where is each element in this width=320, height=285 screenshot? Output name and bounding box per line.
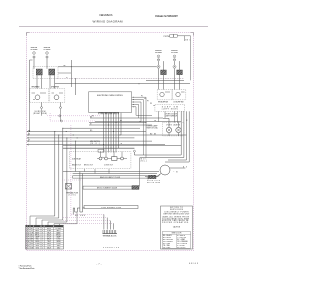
svg-text:FEFL67ECS: FEFL67ECS xyxy=(100,13,113,17)
wire row above bake xyxy=(63,172,159,174)
svg-text:BR-W: BR-W xyxy=(47,239,52,241)
svg-text:GY: GY xyxy=(31,237,33,239)
wire bus rows right xyxy=(63,118,181,148)
header publication number text xyxy=(155,15,179,18)
wire resistors to switches right xyxy=(159,69,180,90)
dashed enclosure left elements xyxy=(33,67,58,79)
footer page number xyxy=(97,263,102,265)
svg-text:(N.C.): (N.C.) xyxy=(141,161,147,163)
dashed wire neutral 2 xyxy=(50,120,95,122)
svg-text:LR SURF SW: LR SURF SW xyxy=(174,101,184,103)
svg-text:GN - GREEN: GN - GREEN xyxy=(163,241,173,243)
surface element RF label xyxy=(31,47,39,51)
svg-text:P7: P7 xyxy=(147,100,149,102)
svg-text:BROIL RLY: BROIL RLY xyxy=(84,164,94,166)
wire P12 out xyxy=(178,36,191,81)
svg-text:MDL: MDL xyxy=(141,159,147,161)
svg-text:P8: P8 xyxy=(150,103,152,105)
wire motor connections xyxy=(145,167,187,178)
terminal block TB1 xyxy=(103,230,118,234)
title WIRING DIAGRAM xyxy=(93,19,124,23)
notes text xyxy=(162,207,190,229)
svg-text:P9: P9 xyxy=(153,105,155,107)
svg-text:BU - BLUE: BU - BLUE xyxy=(163,237,171,239)
svg-text:TN: TN xyxy=(120,143,122,145)
wire diamonds drops xyxy=(42,109,61,121)
svg-text:-7-: -7- xyxy=(97,263,102,265)
svg-text:SERVICERS: SERVICERS xyxy=(170,209,184,211)
svg-text:BROIL: BROIL xyxy=(35,234,40,236)
broil element xyxy=(83,186,132,190)
wire labels right xyxy=(154,120,188,136)
svg-text:OR-W: OR-W xyxy=(47,232,52,234)
svg-text:11: 11 xyxy=(26,248,28,250)
svg-text:RF SURF SW: RF SURF SW xyxy=(32,87,40,89)
svg-text:GY: GY xyxy=(28,140,30,142)
svg-text:PK - PINK: PK - PINK xyxy=(163,247,171,249)
EOC pin labels xyxy=(141,96,155,108)
surface element RR xyxy=(157,55,160,58)
svg-text:# Functional Parts: # Functional Parts xyxy=(19,264,32,267)
connector P12 label xyxy=(164,36,170,38)
wire element link xyxy=(58,72,71,74)
svg-text:W-BK: W-BK xyxy=(47,230,51,232)
relay box enclosure xyxy=(69,152,130,169)
svg-text:2: 2 xyxy=(42,248,43,250)
left switch group label xyxy=(33,111,47,115)
svg-text:DLB RELAY: DLB RELAY xyxy=(72,157,82,160)
svg-text:RF 2600W: RF 2600W xyxy=(31,49,38,51)
svg-text:W: W xyxy=(186,120,188,122)
svg-text:BAKE RLY: BAKE RLY xyxy=(72,163,82,166)
limiter RF xyxy=(33,56,35,58)
surface element LR label xyxy=(171,50,179,54)
svg-text:GY-W: GY-W xyxy=(47,237,52,239)
svg-text:CONV RLY: CONV RLY xyxy=(104,164,114,166)
relay stubs xyxy=(101,152,123,158)
svg-text:BK: BK xyxy=(64,65,66,67)
svg-text:W: W xyxy=(90,124,92,126)
svg-text:BU-W: BU-W xyxy=(47,234,52,236)
svg-text:SWITCH 25A: SWITCH 25A xyxy=(147,127,159,130)
svg-text:(TOD): (TOD) xyxy=(68,195,76,197)
surface element LR xyxy=(173,55,176,58)
connector P12 xyxy=(170,34,177,37)
wire left bundle verticals xyxy=(55,128,76,222)
wire bus rows left xyxy=(27,132,187,145)
svg-text:E: E xyxy=(28,234,29,236)
svg-text:BROIL ELEMENT 3000W: BROIL ELEMENT 3000W xyxy=(97,188,117,190)
wire LF element down xyxy=(46,58,48,69)
svg-text:(RIGHT SIDE): (RIGHT SIDE) xyxy=(33,113,47,115)
infinite switch RF label xyxy=(32,87,40,89)
dashed border frame xyxy=(27,33,194,251)
wire LR element down xyxy=(175,61,180,70)
oven lamps enclosure xyxy=(163,123,184,136)
oven door light switch label xyxy=(165,113,178,117)
bake element xyxy=(73,176,149,179)
svg-text:BROIL: BROIL xyxy=(56,234,61,236)
legend table grid xyxy=(26,225,64,249)
svg-text:YL-W: YL-W xyxy=(47,245,51,247)
broil element hatched end xyxy=(132,186,139,190)
svg-text:5: 5 xyxy=(42,239,43,241)
infinite switch RR label xyxy=(158,101,168,103)
svg-text:BU: BU xyxy=(31,234,33,236)
convection element xyxy=(84,206,138,210)
wire switch RF down xyxy=(41,102,43,106)
svg-text:BK: BK xyxy=(120,120,122,122)
svg-text:LR 1200W: LR 1200W xyxy=(171,52,178,54)
wire left side riser xyxy=(29,60,33,132)
svg-text:F: F xyxy=(28,237,29,239)
svg-text:CAUTION: CAUTION xyxy=(173,225,181,228)
svg-text:RD: RD xyxy=(31,228,34,230)
svg-text:NEUT: NEUT xyxy=(35,230,39,232)
svg-text:*B: *B xyxy=(174,172,179,174)
svg-text:P5: P5 xyxy=(141,96,143,98)
limiter RR xyxy=(157,59,159,61)
svg-text:RR 1800W: RR 1800W xyxy=(155,52,162,54)
svg-text:BU: BU xyxy=(28,134,30,136)
ground prongs xyxy=(73,207,84,215)
dashed wire stub vertical xyxy=(49,113,51,121)
svg-text:H: H xyxy=(28,241,29,243)
svg-text:L: L xyxy=(28,248,29,250)
svg-text:K: K xyxy=(28,245,29,247)
lamp 2 xyxy=(176,127,181,132)
thermal fuse label xyxy=(66,192,78,197)
svg-text:PR - PURPLE: PR - PURPLE xyxy=(177,243,187,245)
svg-text:TN-W: TN-W xyxy=(47,241,51,243)
node A diamond xyxy=(40,106,43,108)
surface element RR label xyxy=(155,50,163,54)
wire vertical BK xyxy=(64,60,72,87)
svg-text:ELECTRONIC OVEN CONTROL: ELECTRONIC OVEN CONTROL xyxy=(97,95,124,97)
dashed wire bundle xyxy=(70,125,72,216)
svg-text:6: 6 xyxy=(42,230,43,232)
terminal block label xyxy=(103,235,118,238)
surface element RF xyxy=(33,52,36,55)
svg-text:BAKE ELEMENT 2500W: BAKE ELEMENT 2500W xyxy=(100,176,120,179)
wire mid row 1 xyxy=(63,144,181,146)
svg-text:(N.O.): (N.O.) xyxy=(90,143,100,145)
svg-text:BK: BK xyxy=(31,226,33,228)
svg-text:RD-W: RD-W xyxy=(47,228,52,230)
wire RF element down xyxy=(33,58,35,69)
svg-text:POWER: POWER xyxy=(56,226,63,228)
footer functional parts note xyxy=(19,264,35,270)
svg-text:YL: YL xyxy=(31,245,33,247)
latch text right xyxy=(141,159,147,163)
wires elements to switches xyxy=(37,75,55,88)
svg-text:RD - RED: RD - RED xyxy=(163,243,171,245)
svg-text:DOOR LOCK: DOOR LOCK xyxy=(147,180,161,182)
svg-text:SENS: SENS xyxy=(35,241,39,243)
infinite switch LR xyxy=(172,90,186,100)
heating resistor LR xyxy=(177,70,183,75)
wire top bus right segment xyxy=(55,83,190,84)
surface element LF xyxy=(46,52,49,55)
EOC P1 label xyxy=(92,116,94,118)
svg-text:08/05: 08/05 xyxy=(189,263,199,265)
electronic oven control board U1 xyxy=(89,92,132,113)
svg-text:P12 PW: P12 PW xyxy=(164,36,170,38)
svg-text:2: 2 xyxy=(42,226,43,228)
wire RR element down xyxy=(159,61,164,70)
svg-text:POWER: POWER xyxy=(56,228,63,230)
relay contact 3 xyxy=(117,157,127,160)
wire broil right riser xyxy=(139,158,141,187)
relay coil xyxy=(108,157,117,161)
dashed wire neutral 1 xyxy=(47,115,100,117)
infinite switch RR xyxy=(157,90,172,100)
svg-text:PR-W: PR-W xyxy=(47,243,52,245)
dashed wire mid xyxy=(62,179,83,181)
node C diamond xyxy=(157,65,160,69)
svg-text:CONV: CONV xyxy=(35,243,39,245)
notes box xyxy=(161,206,193,249)
relay labels xyxy=(72,157,114,166)
svg-text:Y - YELLOW: Y - YELLOW xyxy=(177,237,187,239)
wire mid row 2 xyxy=(63,147,135,149)
svg-text:* Non-Illuminated Parts: * Non-Illuminated Parts xyxy=(19,267,35,270)
svg-text:GN: GN xyxy=(31,248,33,250)
latch switch label xyxy=(90,141,101,145)
wire staircase to table xyxy=(30,212,77,225)
svg-text:P1: P1 xyxy=(92,116,94,118)
infinite switch LF xyxy=(50,89,65,103)
svg-text:MC GND: MC GND xyxy=(75,215,86,217)
svg-text:BK: BK xyxy=(183,167,187,169)
svg-text:BEFORE SERVICING UNIT: BEFORE SERVICING UNIT xyxy=(164,213,191,215)
svg-text:GD - GOLD: GD - GOLD xyxy=(177,247,186,249)
svg-text:MOTOR 100W: MOTOR 100W xyxy=(147,182,160,184)
node E diamond xyxy=(133,150,136,155)
svg-text:THERMAL FUSE: THERMAL FUSE xyxy=(66,192,78,195)
svg-text:L1 IN: L1 IN xyxy=(36,226,40,228)
relay contact 1 xyxy=(97,157,102,160)
wire vertical W xyxy=(66,77,75,95)
svg-text:BR - BROWN: BR - BROWN xyxy=(163,239,174,241)
infinite switch RF xyxy=(30,89,49,103)
wire stubs below relay box xyxy=(85,169,110,174)
oven lamp left label xyxy=(147,125,159,130)
wire verticals to broil ground xyxy=(80,172,83,209)
limiter LF xyxy=(46,56,48,58)
svg-text:CONV: CONV xyxy=(56,243,60,245)
wire labels bus xyxy=(28,117,153,146)
heating resistor RF xyxy=(36,69,42,75)
svg-text:LF SURF SW: LF SURF SW xyxy=(51,87,59,89)
limiter LR xyxy=(173,59,175,61)
wire right bundle bends xyxy=(134,155,189,162)
legend table xyxy=(26,225,64,249)
latch switch symbol xyxy=(98,150,104,153)
door lock motor label xyxy=(147,177,161,185)
svg-text:PROPER OPERATION.: PROPER OPERATION. xyxy=(162,221,190,224)
svg-text:RR SURF SW: RR SURF SW xyxy=(158,101,168,103)
dashed wires to terminal block xyxy=(63,215,114,230)
diagram part number xyxy=(103,247,120,249)
infinite switch LF label xyxy=(51,87,59,89)
svg-text:BK: BK xyxy=(90,117,92,119)
EOC right pins xyxy=(132,97,146,108)
svg-text:LF 1800W: LF 1800W xyxy=(44,49,51,51)
door lock motor M1 xyxy=(160,165,178,175)
wire right bundle verticals xyxy=(181,111,189,162)
wire right group drops xyxy=(159,111,178,122)
svg-text:BK: BK xyxy=(154,134,156,136)
relay contact 2 xyxy=(102,157,108,160)
svg-text:CONV ELEMENT 350W: CONV ELEMENT 350W xyxy=(101,207,121,209)
svg-text:MDL: MDL xyxy=(36,239,39,241)
svg-text:P6: P6 xyxy=(144,98,146,100)
wire fan EOC verticals xyxy=(104,113,122,153)
off-page connector chevrons xyxy=(27,131,28,146)
heating resistor RR xyxy=(161,70,167,75)
svg-text:(LEFT SIDE): (LEFT SIDE) xyxy=(162,109,178,111)
svg-text:TERMINAL BLOCK: TERMINAL BLOCK xyxy=(103,235,118,238)
infinite switch LR label xyxy=(174,101,184,103)
svg-text:BK - BLACK: BK - BLACK xyxy=(163,234,173,237)
thermal fuse TOD xyxy=(66,184,72,190)
heating resistor LF xyxy=(49,69,55,75)
svg-text:WIRING DIAGRAM: WIRING DIAGRAM xyxy=(93,19,124,23)
svg-text:0: 0 xyxy=(42,245,43,247)
wire right verticals under EOC xyxy=(136,97,152,157)
lamp 1 xyxy=(166,127,171,132)
svg-text:TN: TN xyxy=(31,241,33,243)
svg-text:7: 7 xyxy=(42,241,43,243)
svg-text:1: 1 xyxy=(42,234,43,236)
svg-text:3: 3 xyxy=(42,237,43,239)
svg-text:SENS: SENS xyxy=(56,241,60,243)
svg-text:W - WHITE: W - WHITE xyxy=(177,235,185,237)
svg-text:BK 1: BK 1 xyxy=(185,40,190,42)
svg-text:Publication No: 5995443487: Publication No: 5995443487 xyxy=(155,15,179,18)
svg-text:4: 4 xyxy=(42,228,43,230)
junction dots bus xyxy=(54,121,146,149)
svg-text:316441794: 316441794 xyxy=(103,247,120,249)
EOC bottom connector P1 xyxy=(99,112,120,114)
wire right L1 feed xyxy=(146,79,184,81)
wire L1 top bus xyxy=(58,66,157,68)
svg-text:9: 9 xyxy=(42,243,43,245)
right group enclosure xyxy=(155,104,185,111)
svg-text:BK-W: BK-W xyxy=(47,226,52,228)
surface element LF label xyxy=(44,47,52,51)
wire lamps feed xyxy=(163,118,179,136)
svg-text:OVEN LAMPS: OVEN LAMPS xyxy=(166,123,180,126)
header separator line xyxy=(19,25,208,27)
svg-text:LOCK: LOCK xyxy=(56,239,60,241)
svg-text:L2 IN: L2 IN xyxy=(36,228,40,230)
svg-text:2: 2 xyxy=(26,228,27,230)
footer date xyxy=(189,263,199,265)
svg-text:V - VIOLET: V - VIOLET xyxy=(177,245,185,247)
wire switch LF down xyxy=(60,102,62,106)
node B diamond xyxy=(59,106,62,108)
node D diamond xyxy=(173,65,176,69)
svg-text:GN-W: GN-W xyxy=(47,248,52,250)
bake element hatched end xyxy=(149,175,156,178)
svg-text:OR: OR xyxy=(154,120,156,122)
ground label xyxy=(75,215,86,217)
svg-text:NEUT: NEUT xyxy=(56,230,60,232)
header model number text xyxy=(100,13,113,17)
wire L2 top bus xyxy=(57,78,184,79)
svg-text:8: 8 xyxy=(42,232,43,234)
svg-text:LIGHT SWITCH: LIGHT SWITCH xyxy=(165,115,178,117)
svg-text:B: B xyxy=(28,228,29,230)
